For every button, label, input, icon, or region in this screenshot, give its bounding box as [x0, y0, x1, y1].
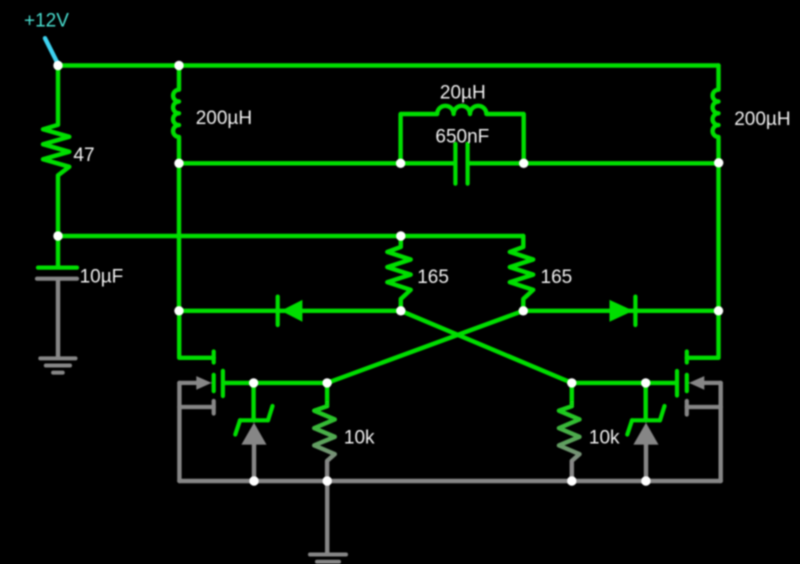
- node dot L1 bottom: [174, 159, 183, 168]
- svg-text:650nF: 650nF: [435, 127, 489, 148]
- capacitor C1 10uF top plate: [56, 236, 60, 266]
- labeled node +12V lead: [45, 38, 58, 64]
- node dot gate Q2: [641, 378, 650, 387]
- node dot R2 top: [396, 231, 405, 240]
- wire cross coupling A: [401, 311, 572, 383]
- svg-text:10k: 10k: [344, 428, 375, 449]
- inductor L2 20uH: [401, 106, 524, 164]
- wire tank rail right: [470, 161, 719, 165]
- resistor R4 10k: [314, 383, 335, 481]
- node dot R5 bottom: [567, 476, 576, 485]
- svg-text:+12V: +12V: [24, 11, 69, 32]
- transistor Q1 drain wire: [179, 311, 214, 358]
- wire right drop: [716, 163, 720, 310]
- wire left drop: [177, 163, 181, 310]
- svg-text:10k: 10k: [589, 428, 620, 449]
- svg-text:10µF: 10µF: [80, 267, 124, 288]
- node dot L3 bottom: [714, 158, 723, 167]
- transistor Q1 source lead: [179, 405, 213, 409]
- resistor R5 10k: [559, 383, 580, 481]
- ground G1: [40, 358, 75, 372]
- transistor Q1 bulk arrow: [179, 381, 200, 385]
- resistor R1 47: [43, 66, 69, 237]
- transistor Q2 source lead: [687, 405, 721, 409]
- node dot R5 top: [567, 378, 576, 387]
- svg-text:200µH: 200µH: [734, 109, 790, 130]
- svg-text:165: 165: [417, 267, 449, 288]
- node dot R4 top: [322, 378, 331, 387]
- node dot drain left: [174, 306, 183, 315]
- node dot drain right: [714, 306, 723, 315]
- node dot gate Q1: [249, 378, 258, 387]
- inductor L1 200uH: [173, 66, 179, 164]
- resistor R3 165: [510, 236, 533, 311]
- transistor Q2 bulk arrow: [705, 381, 721, 385]
- node dot rail left: [53, 231, 62, 240]
- zener Z1: [251, 383, 255, 420]
- node dot ground rail: [323, 476, 332, 485]
- svg-text:200µH: 200µH: [196, 108, 252, 129]
- svg-text:20µH: 20µH: [440, 82, 486, 103]
- capacitor C1 10uF bottom plate: [37, 277, 77, 281]
- wire ground rail left: [177, 383, 181, 481]
- wire gate row left: [254, 381, 328, 385]
- transistor Q2 gate: [675, 371, 679, 396]
- wire diode row left: [179, 309, 401, 313]
- node dot Z1 bottom: [249, 476, 258, 485]
- transistor Q2 drain wire: [687, 311, 719, 358]
- wire ground rail bottom: [179, 479, 720, 483]
- zener Z2: [644, 383, 648, 420]
- transistor Q2 channel: [685, 352, 689, 363]
- wire ground rail right: [719, 383, 723, 481]
- svg-text:47: 47: [73, 145, 94, 166]
- node dot L1 top: [174, 61, 183, 70]
- svg-text:165: 165: [541, 267, 573, 288]
- wire top rail: [58, 63, 719, 67]
- node dot Z2 bottom: [641, 476, 650, 485]
- ground G2: [325, 481, 329, 553]
- node dot top-left: [53, 61, 62, 70]
- node dot R3 bottom: [519, 306, 528, 315]
- node dot tank left: [396, 159, 405, 168]
- wire rail mid-left: [58, 234, 523, 238]
- resistor R2 165: [387, 236, 410, 311]
- node dot R2 bottom: [396, 306, 405, 315]
- capacitor C2 650nF: [453, 144, 457, 184]
- diode D2: [610, 300, 634, 322]
- wire tank rail left: [179, 161, 453, 165]
- transistor Q1 gate: [221, 371, 225, 396]
- transistor Q1 channel: [212, 352, 216, 363]
- wire gate row right: [572, 381, 646, 385]
- wire diode row right: [523, 309, 718, 313]
- inductor L3 200uH: [713, 66, 719, 164]
- wire cross coupling B: [327, 311, 523, 383]
- diode D1: [281, 300, 303, 322]
- node dot tank right: [519, 159, 528, 168]
